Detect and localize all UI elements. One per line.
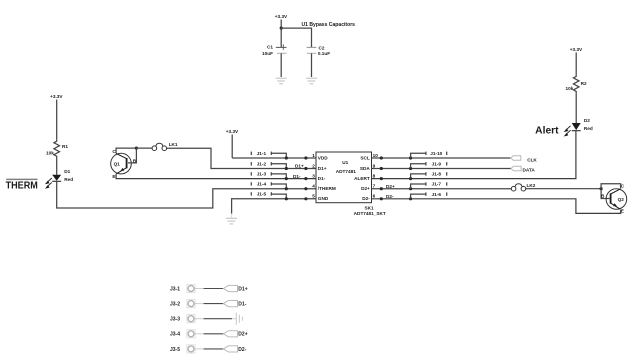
svg-text:D2+: D2+ — [386, 184, 395, 189]
svg-text:D1-: D1- — [293, 174, 301, 179]
svg-text:ADT7481: ADT7481 — [336, 169, 356, 174]
svg-text:D1+: D1+ — [318, 166, 327, 171]
svg-text:B: B — [601, 194, 605, 199]
svg-text:J1-2: J1-2 — [257, 162, 267, 167]
svg-text:R1: R1 — [62, 144, 68, 149]
wire — [280, 53, 282, 77]
wire to LK1 — [136, 147, 152, 149]
svg-text:6: 6 — [373, 194, 376, 199]
flag DATA — [511, 166, 535, 172]
svg-text:D1+: D1+ — [238, 286, 247, 292]
connector bracket J1-9 — [380, 162, 447, 171]
wire — [575, 93, 577, 123]
svg-text:J3-5: J3-5 — [170, 347, 180, 353]
connector bracket J1-10 — [380, 151, 447, 160]
svg-text:10k: 10k — [46, 150, 54, 155]
wire SCL net — [372, 157, 511, 159]
wire VDD — [232, 157, 316, 159]
transistor Q1 — [111, 149, 137, 179]
svg-text:GND: GND — [318, 196, 329, 201]
svg-text:C: C — [621, 183, 625, 188]
svg-text:J3-2: J3-2 — [170, 302, 180, 308]
svg-text:LK2: LK2 — [527, 183, 536, 188]
svg-text:J1-9: J1-9 — [432, 162, 442, 167]
svg-text:0.1uF: 0.1uF — [318, 51, 330, 56]
connector bracket J1-6 — [380, 192, 447, 201]
capacitor C1 — [262, 44, 287, 56]
wire — [281, 28, 311, 47]
wire — [56, 158, 58, 175]
svg-text:Q2: Q2 — [618, 197, 625, 202]
connector bracket J1-8 — [380, 172, 447, 181]
svg-text:D2-: D2- — [238, 347, 246, 353]
power +3.3V (alert) — [570, 47, 583, 75]
transistor Q2 — [601, 183, 627, 213]
flag CLK — [511, 156, 538, 163]
svg-text:VDD: VDD — [318, 156, 329, 161]
svg-text:C1: C1 — [267, 45, 273, 50]
svg-text:J1-7: J1-7 — [432, 182, 442, 187]
wire D1+ net — [167, 148, 316, 168]
connector bracket J1-3 — [251, 172, 307, 181]
power +3.3V (left) — [50, 94, 63, 140]
wire THERM net — [57, 181, 316, 208]
wire — [311, 53, 313, 77]
svg-text:E: E — [112, 174, 115, 179]
svg-text:CLK: CLK — [527, 157, 537, 162]
LED D2 Red — [572, 118, 593, 131]
svg-text:Q1: Q1 — [114, 161, 121, 166]
svg-text:D2-: D2- — [362, 196, 370, 201]
power +3.3V (bypass) — [275, 14, 288, 28]
svg-text:+3.3V: +3.3V — [50, 94, 63, 99]
IC U1 ADT7481 socket — [316, 152, 372, 203]
svg-text:Red: Red — [64, 177, 73, 182]
svg-text:SCL: SCL — [360, 156, 370, 161]
svg-text:J3-4: J3-4 — [170, 332, 180, 338]
svg-text:D1+: D1+ — [295, 164, 304, 169]
svg-text:J1-1: J1-1 — [257, 151, 267, 156]
svg-text:SK1: SK1 — [364, 206, 374, 211]
svg-text:4: 4 — [312, 184, 315, 189]
svg-text:J1-3: J1-3 — [257, 172, 267, 177]
svg-text:D2+: D2+ — [238, 332, 247, 338]
wire Q1 emitter / D1- net — [116, 174, 316, 179]
svg-text:2: 2 — [312, 163, 315, 168]
connector bracket J1-4 — [251, 182, 307, 191]
capacitor C2 — [307, 46, 331, 57]
wire ALERT net — [372, 131, 576, 179]
ground (under C2) — [306, 78, 317, 84]
svg-text:+3.3V: +3.3V — [570, 47, 583, 52]
wire D2+ to Q2 — [526, 188, 601, 190]
svg-text:J3-3: J3-3 — [170, 317, 180, 323]
svg-text:J1-10: J1-10 — [430, 151, 442, 156]
wire D2+ net — [372, 188, 512, 190]
connector J3-3 — [170, 313, 243, 325]
wire D2- net — [372, 199, 621, 214]
wire — [280, 28, 282, 47]
svg-text:DATA: DATA — [523, 168, 536, 173]
svg-text:R2: R2 — [581, 81, 587, 86]
connector J3-5 — [170, 345, 247, 353]
svg-text:3: 3 — [312, 174, 315, 179]
resistor R1 10k — [46, 140, 68, 158]
svg-text:5: 5 — [312, 194, 315, 199]
resistor R2 10k — [566, 75, 587, 93]
wire Q2 collector — [601, 184, 621, 189]
power +3.3V (VDD) — [226, 129, 239, 158]
svg-text:SDA: SDA — [360, 166, 371, 171]
jumper LK2 — [511, 183, 535, 191]
svg-text:THERM: THERM — [6, 180, 38, 191]
svg-text:10uF: 10uF — [262, 51, 273, 56]
svg-text:D2+: D2+ — [361, 186, 370, 191]
svg-text:J1-4: J1-4 — [257, 182, 267, 187]
svg-text:D1: D1 — [64, 169, 70, 174]
svg-text:Red: Red — [584, 126, 593, 131]
svg-text:1: 1 — [312, 153, 315, 158]
svg-text:J1-5: J1-5 — [257, 192, 267, 197]
svg-text:E: E — [621, 209, 624, 214]
svg-text:J1-6: J1-6 — [432, 192, 442, 197]
svg-text:10k: 10k — [566, 86, 574, 91]
svg-text:8: 8 — [373, 174, 376, 179]
svg-text:7: 7 — [373, 184, 376, 189]
svg-text:ALERT: ALERT — [354, 176, 370, 181]
LED D1 light arrows — [45, 178, 52, 189]
ground (pin5) — [226, 218, 237, 224]
svg-text:9: 9 — [373, 163, 376, 168]
svg-text:D2-: D2- — [386, 194, 394, 199]
svg-text:LK1: LK1 — [169, 142, 178, 147]
node Q2 junction — [600, 187, 603, 190]
connector J3-2 — [170, 300, 247, 308]
wire GND net — [232, 199, 316, 214]
connector bracket J1-2 — [251, 162, 307, 171]
svg-text:ADT7481_SKT: ADT7481_SKT — [354, 211, 386, 216]
svg-text:Alert: Alert — [535, 126, 559, 137]
wire Q1 base — [128, 148, 136, 163]
net label /THERM — [6, 179, 38, 191]
wire SDA net — [372, 168, 512, 170]
wire Q2 base — [601, 189, 609, 199]
connector bracket J1-1 — [251, 151, 307, 160]
svg-text:/THERM: /THERM — [318, 186, 336, 191]
svg-text:J1-8: J1-8 — [432, 172, 442, 177]
svg-text:J3-1: J3-1 — [170, 286, 180, 292]
LED D1 Red — [52, 169, 73, 182]
connector bracket J1-7 — [380, 182, 447, 191]
ground (under C1) — [276, 78, 287, 84]
svg-text:U1: U1 — [342, 160, 348, 165]
jumper LK1 — [152, 142, 178, 151]
svg-text:D2: D2 — [584, 118, 590, 123]
connector J3-1 — [170, 284, 248, 292]
node Q1 c-b junction — [135, 147, 138, 150]
svg-text:D1-: D1- — [318, 176, 326, 181]
svg-text:+3.3V: +3.3V — [226, 129, 239, 134]
svg-text:+3.3V: +3.3V — [275, 14, 288, 19]
LED D2 light arrows — [564, 126, 571, 137]
svg-text:D1-: D1- — [238, 302, 246, 308]
node bypass junction — [280, 27, 283, 30]
svg-text:10: 10 — [373, 153, 379, 158]
svg-text:C2: C2 — [319, 46, 325, 51]
connector bracket J1-5 — [251, 192, 307, 201]
svg-text:U1 Bypass Capacitors: U1 Bypass Capacitors — [302, 22, 356, 28]
wire Q1 collector — [116, 148, 136, 153]
connector J3-4 — [170, 330, 248, 338]
